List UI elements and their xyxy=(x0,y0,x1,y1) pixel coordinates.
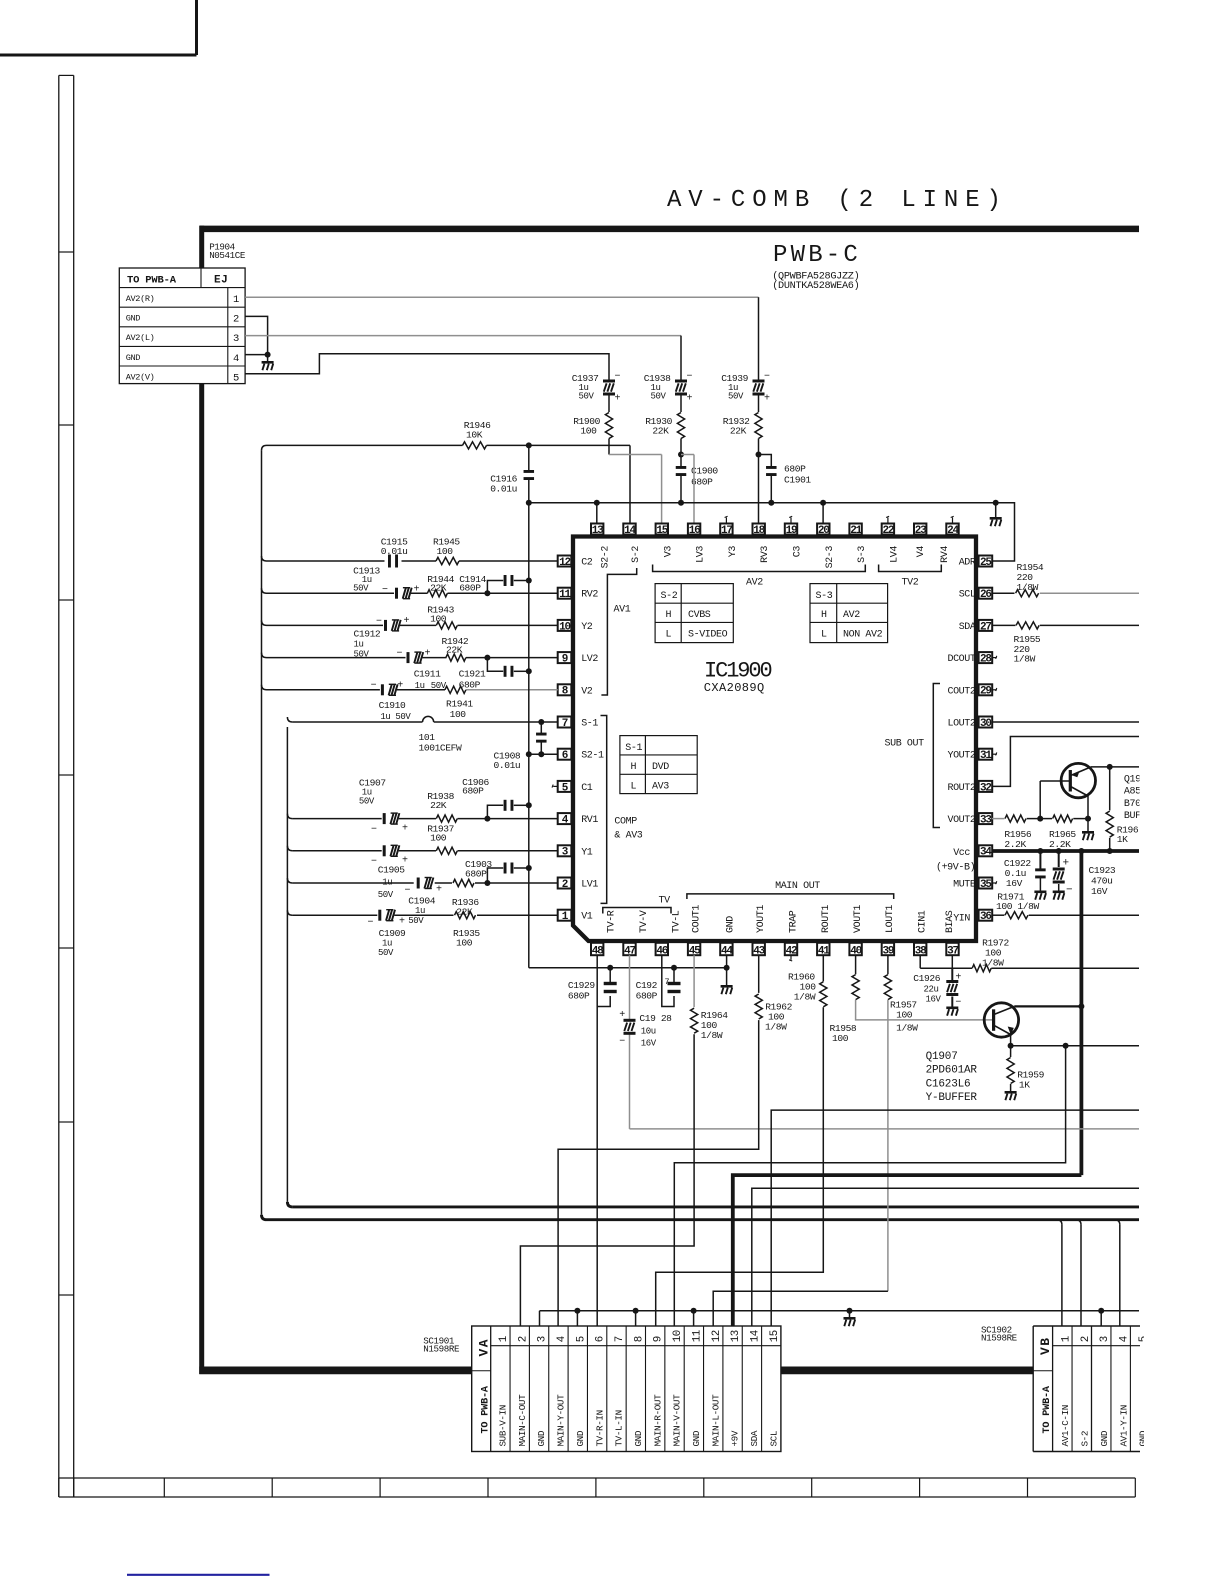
svg-text:7: 7 xyxy=(665,977,670,987)
junction R1944 output node xyxy=(484,590,490,596)
junction collector to R1966 xyxy=(1107,764,1113,770)
wire VOUT1 to Q1907 base xyxy=(856,1000,994,1020)
sheet frame top-left corner box xyxy=(0,0,197,55)
capacitor C1929 680P xyxy=(568,968,617,1007)
wire COUT1 to SC1901 pin2 MAIN-C-OUT xyxy=(520,1034,694,1326)
svg-text:N1598RE: N1598RE xyxy=(423,1344,460,1355)
wire row pin1 V1 xyxy=(287,910,557,915)
pin 38 of IC1900 xyxy=(914,943,927,958)
ground symbol on bus xyxy=(990,503,1002,526)
svg-text:L: L xyxy=(821,630,827,641)
wire EJ pin4 GND xyxy=(245,354,268,356)
IC1900 left pin names xyxy=(581,558,604,923)
svg-text:24: 24 xyxy=(947,525,959,537)
resistor R1938 22K xyxy=(427,791,457,822)
svg-text:+: + xyxy=(425,649,431,660)
svg-text:−: − xyxy=(1066,885,1072,897)
wire row pin3 Y1 xyxy=(287,846,557,851)
svg-text:+: + xyxy=(436,885,442,896)
svg-text:LOUT2: LOUT2 xyxy=(947,719,975,730)
svg-text:2PD601AR: 2PD601AR xyxy=(926,1065,978,1077)
svg-text:C1901: C1901 xyxy=(784,475,811,486)
svg-text:1/8W: 1/8W xyxy=(701,1030,723,1041)
svg-text:Q1907: Q1907 xyxy=(926,1051,958,1063)
transistor Q1908 PNP buffer xyxy=(1040,763,1095,818)
svg-text:ROUT1: ROUT1 xyxy=(821,905,832,933)
capacitor C1911 1u 50V xyxy=(397,649,447,692)
group bracket SUB OUT xyxy=(885,684,941,828)
pin 7 of IC1900 xyxy=(558,717,572,730)
wire Q1907 collector to +9V xyxy=(1014,1005,1081,1007)
svg-text:43: 43 xyxy=(753,946,765,958)
wire Q1908 collector line xyxy=(1091,766,1139,768)
pin 8 of IC1900 xyxy=(558,684,572,697)
svg-text:+: + xyxy=(619,1010,625,1021)
svg-text:AV1-Y-IN: AV1-Y-IN xyxy=(1118,1405,1129,1446)
svg-text:CXA2089Q: CXA2089Q xyxy=(704,681,765,695)
svg-text:50V: 50V xyxy=(378,948,394,958)
resistor R1942 22K xyxy=(442,636,469,661)
resistor R1966 1K xyxy=(1106,767,1139,851)
svg-text:1: 1 xyxy=(498,1336,510,1342)
wire Q1907 emitter line xyxy=(1011,1045,1139,1047)
svg-text:+: + xyxy=(955,973,961,984)
pin 27 of IC1900 xyxy=(979,620,993,633)
resistor R1937 100 xyxy=(427,824,457,855)
pin 19 of IC1900 xyxy=(785,524,797,537)
svg-text:7: 7 xyxy=(562,718,568,730)
svg-text:11: 11 xyxy=(691,1330,703,1342)
wire pin48 TV-R to SC1901 pin6 xyxy=(596,955,598,1326)
resistor R1954 220 1/8W on SCL xyxy=(992,562,1139,597)
pin 43 of IC1900 xyxy=(753,943,766,958)
svg-text:VOUT1: VOUT1 xyxy=(853,905,864,933)
wire EJ pin2 GND xyxy=(245,316,268,354)
ground symbol below C1922 xyxy=(1034,891,1046,900)
junction R1938 output node xyxy=(484,816,490,822)
resistor R1930 22K xyxy=(645,413,684,455)
svg-text:−: − xyxy=(368,918,374,929)
resistor R1944 22K xyxy=(427,574,454,597)
pin 11 of IC1900 xyxy=(558,588,572,601)
svg-text:NON AV2: NON AV2 xyxy=(843,630,883,641)
svg-text:PWB-C: PWB-C xyxy=(773,242,861,269)
svg-text:S-3: S-3 xyxy=(857,546,868,563)
pin 45 of IC1900 xyxy=(688,943,701,958)
svg-text:S2-2: S2-2 xyxy=(601,546,612,569)
svg-text:TO PWB-A: TO PWB-A xyxy=(1042,1385,1053,1433)
wire YOUT1 to SC1901 pin4 MAIN-Y-OUT xyxy=(558,1020,759,1326)
svg-text:H: H xyxy=(821,610,827,621)
capacitor C1906 680P xyxy=(462,777,529,819)
svg-text:& AV3: & AV3 xyxy=(614,831,642,842)
svg-text:MAIN OUT: MAIN OUT xyxy=(775,881,820,892)
svg-text:−: − xyxy=(382,585,388,596)
transistor Q1907 part labels xyxy=(926,1051,978,1104)
wire +9V-B rail from pin34 xyxy=(992,849,1139,853)
connector P1904 N0541CE label xyxy=(209,242,246,262)
svg-text:H: H xyxy=(666,610,672,621)
svg-text:ADR: ADR xyxy=(959,558,976,569)
svg-text:7: 7 xyxy=(614,1336,626,1342)
svg-text:0.01u: 0.01u xyxy=(494,760,521,771)
capacitor C1905 1u 50V xyxy=(371,845,408,900)
svg-text:AV2(V): AV2(V) xyxy=(126,372,155,382)
svg-text:LOUT1: LOUT1 xyxy=(885,905,896,933)
connector EJ (TO PWB-A) table xyxy=(119,268,245,384)
svg-text:Y3: Y3 xyxy=(728,546,739,558)
pin 1 of IC1900 xyxy=(558,910,572,923)
svg-text:100: 100 xyxy=(430,833,447,844)
svg-text:C1912: C1912 xyxy=(354,629,381,640)
capacitor C1907 1u 50V xyxy=(359,778,408,836)
capacitor C1901 680P xyxy=(759,455,812,503)
wire pin46 TV-L to C1927 xyxy=(662,955,674,1006)
svg-text:C1929: C1929 xyxy=(568,980,595,991)
svg-text:IC1900: IC1900 xyxy=(704,659,772,684)
svg-text:10u: 10u xyxy=(641,1027,656,1037)
ground symbol below C1923 xyxy=(1053,891,1065,900)
group bracket MAIN OUT xyxy=(687,881,894,899)
resistor R1946 10K xyxy=(463,420,492,449)
svg-text:VB: VB xyxy=(1038,1336,1053,1355)
wire +9V thick drop x1081.4 xyxy=(1080,851,1084,1175)
svg-text:C1904: C1904 xyxy=(408,896,435,907)
wire bias column x528.8 xyxy=(528,503,530,968)
op-amp/IC IC1900 CXA2089Q body xyxy=(573,537,976,942)
pin 13 of IC1900 xyxy=(591,524,604,537)
pin 28 of IC1900 xyxy=(979,652,993,665)
svg-text:C192: C192 xyxy=(636,980,658,991)
svg-text:V2: V2 xyxy=(581,686,593,697)
svg-text:AV1: AV1 xyxy=(614,605,631,616)
svg-text:H: H xyxy=(631,762,637,773)
wire SDA rail to SC1901 pin14 xyxy=(752,1188,1139,1326)
svg-text:TO PWB-A: TO PWB-A xyxy=(127,274,177,286)
svg-text:680P: 680P xyxy=(459,583,481,594)
pin 24 of IC1900 xyxy=(946,524,959,537)
wire emitter to SC1901 pin10 MAIN-V-OUT xyxy=(674,1046,1065,1326)
capacitor C1912 1u 50V xyxy=(354,616,410,660)
svg-text:2: 2 xyxy=(517,1336,529,1342)
svg-text:GND: GND xyxy=(1099,1430,1110,1446)
wire R1946 row y445 xyxy=(262,445,631,523)
svg-text:22K: 22K xyxy=(446,645,463,656)
svg-text:18: 18 xyxy=(753,525,765,537)
junction Q1908 emitter node xyxy=(1085,816,1091,822)
svg-text:C1911: C1911 xyxy=(414,669,441,680)
svg-text:4: 4 xyxy=(1119,1336,1131,1342)
svg-text:BIAS: BIAS xyxy=(945,910,956,933)
svg-text:C1: C1 xyxy=(581,783,593,794)
svg-text:S-1: S-1 xyxy=(625,743,642,754)
resistor R1900 100 xyxy=(573,413,612,455)
svg-text:50V: 50V xyxy=(408,916,424,926)
svg-text:SDA: SDA xyxy=(959,622,976,633)
svg-text:3: 3 xyxy=(233,333,239,345)
resistor R1932 22K xyxy=(723,413,762,455)
capacitor C1908 0.01u xyxy=(494,722,547,771)
svg-text:LV4: LV4 xyxy=(889,546,900,563)
svg-text:CVBS: CVBS xyxy=(688,610,711,621)
svg-text:41: 41 xyxy=(818,946,830,958)
svg-text:SCL: SCL xyxy=(959,590,976,601)
svg-text:TV-V: TV-V xyxy=(639,910,650,933)
ground symbol at EJ connector xyxy=(262,355,274,371)
svg-text:19: 19 xyxy=(786,525,797,537)
group bracket TV xyxy=(603,896,671,914)
connector SC1901 VA table xyxy=(472,1326,781,1452)
resistor R1960 100 1/8W on ROUT1 xyxy=(788,955,827,1007)
wire SC1902 pin2 riser xyxy=(1076,1220,1081,1326)
svg-text:Y-BUFFER: Y-BUFFER xyxy=(926,1092,978,1104)
pin 48 of IC1900 xyxy=(591,943,604,958)
junction +9V rail nodes xyxy=(1037,848,1112,854)
svg-text:AV2(L): AV2(L) xyxy=(126,333,155,343)
svg-text:10: 10 xyxy=(559,621,570,633)
svg-text:YOUT2: YOUT2 xyxy=(947,751,975,762)
svg-text:VOUT2: VOUT2 xyxy=(947,815,975,826)
capacitor C1904 1u 50V xyxy=(405,878,443,927)
svg-text:26: 26 xyxy=(980,589,991,601)
svg-text:C1900: C1900 xyxy=(691,466,718,477)
svg-text:SUB-V-IN: SUB-V-IN xyxy=(498,1405,509,1446)
wire EJ pin3 AV2(L) to C1938 xyxy=(245,336,681,372)
resistor R1956 2.2K xyxy=(992,815,1040,850)
junction R1936 output node xyxy=(484,880,490,886)
svg-text:V3: V3 xyxy=(663,546,674,558)
svg-text:23: 23 xyxy=(915,525,927,537)
jumper 101 1001CEFW label xyxy=(419,732,463,754)
svg-text:16V: 16V xyxy=(926,995,942,1005)
svg-text:RV3: RV3 xyxy=(760,546,771,563)
svg-text:Y1: Y1 xyxy=(581,847,593,858)
connector SC1901 N1598RE label xyxy=(423,1336,460,1355)
pin 35 of IC1900 xyxy=(979,878,993,891)
svg-text:2: 2 xyxy=(233,314,239,326)
svg-text:AV3: AV3 xyxy=(652,782,669,793)
svg-text:S-2: S-2 xyxy=(1079,1431,1090,1447)
wire row pin8 V2 xyxy=(262,685,558,690)
svg-text:0.01u: 0.01u xyxy=(381,546,408,557)
svg-text:S-VIDEO: S-VIDEO xyxy=(688,630,728,641)
svg-text:GND: GND xyxy=(575,1430,586,1446)
svg-text:−: − xyxy=(619,1037,625,1048)
pin 16 of IC1900 xyxy=(688,524,700,537)
wire pin47 TV-V with series capacitor xyxy=(630,955,1140,1129)
svg-text:12: 12 xyxy=(711,1330,723,1342)
truth table S-1 DVD / AV3 xyxy=(620,736,697,794)
svg-text:680P: 680P xyxy=(636,991,658,1002)
resistor R1935 100 xyxy=(453,912,480,949)
svg-text:TV: TV xyxy=(659,896,671,907)
svg-text:35: 35 xyxy=(980,879,992,891)
svg-text:470u: 470u xyxy=(1091,876,1112,887)
wire row pin12 C2 xyxy=(262,556,558,561)
junction C1908 bottom nodes xyxy=(526,751,545,757)
svg-text:1K: 1K xyxy=(1117,834,1128,845)
svg-text:GND: GND xyxy=(536,1430,547,1446)
group bracket AV1 xyxy=(601,568,636,695)
ground symbol on GND rail xyxy=(844,1311,856,1326)
capacitor C1903 680P xyxy=(465,859,529,883)
svg-text:+: + xyxy=(687,394,693,405)
pin 46 of IC1900 xyxy=(656,943,668,958)
svg-text:100: 100 xyxy=(456,938,473,949)
svg-text:−: − xyxy=(371,857,377,868)
wire SC1902 pin1 riser xyxy=(1057,1220,1062,1326)
group bracket TV2 xyxy=(879,565,942,589)
svg-text:3: 3 xyxy=(1099,1336,1111,1342)
svg-text:C1921: C1921 xyxy=(459,669,486,680)
pin 10 of IC1900 xyxy=(558,620,572,633)
svg-text:+: + xyxy=(615,394,621,405)
svg-text:YOUT1: YOUT1 xyxy=(756,905,767,933)
svg-text:100: 100 xyxy=(832,1033,849,1044)
junction EJ ground node xyxy=(265,352,271,358)
capacitor C1910 1u 50V xyxy=(371,681,412,723)
svg-text:14: 14 xyxy=(749,1330,761,1342)
svg-text:LV2: LV2 xyxy=(581,654,598,665)
svg-text:100 1/8W: 100 1/8W xyxy=(996,901,1040,912)
ground symbol below R1959 xyxy=(1005,1091,1017,1100)
svg-text:1K: 1K xyxy=(1019,1080,1030,1091)
svg-text:C1910: C1910 xyxy=(379,700,406,711)
ground symbol below R1965 xyxy=(1082,819,1094,841)
pin 2 of IC1900 xyxy=(558,878,572,891)
svg-text:15: 15 xyxy=(656,525,668,537)
no-connect ticks on unused pins xyxy=(552,516,997,961)
svg-text:50V: 50V xyxy=(378,890,394,900)
svg-text:SCL: SCL xyxy=(768,1431,779,1447)
svg-text:MUTE: MUTE xyxy=(953,880,976,891)
svg-text:2: 2 xyxy=(562,879,568,891)
resistor R1972 100 1/8W xyxy=(952,938,1139,972)
pin 33 of IC1900 xyxy=(979,813,993,826)
resistor R1959 1K xyxy=(1007,1046,1045,1091)
svg-text:C3: C3 xyxy=(793,546,804,558)
PWB-C board outline top edge xyxy=(200,226,1139,233)
IC1900 bottom pin names rotated xyxy=(607,905,956,933)
wire LOUT1 to SC1901 pin12 MAIN-L-OUT xyxy=(713,1000,888,1326)
group bracket COMP & AV3 xyxy=(601,716,643,904)
pin 32 of IC1900 xyxy=(979,781,993,794)
svg-text:30: 30 xyxy=(980,718,991,730)
wire left feed vertical bus B x287.4 xyxy=(287,727,292,1207)
wire SCL rail to SC1901 pin15 xyxy=(771,1110,1139,1326)
svg-text:N1598RE: N1598RE xyxy=(981,1333,1018,1344)
svg-text:4: 4 xyxy=(233,353,239,365)
junction GND rail nodes xyxy=(574,1308,1104,1314)
junction C1914 to bias line xyxy=(526,578,532,584)
svg-text:L: L xyxy=(666,630,672,641)
IC1900 right pin names xyxy=(936,558,976,925)
svg-text:−: − xyxy=(371,825,377,836)
svg-text:22K: 22K xyxy=(652,426,669,437)
svg-text:S2-1: S2-1 xyxy=(581,751,604,762)
svg-text:9: 9 xyxy=(653,1336,665,1342)
svg-text:16: 16 xyxy=(689,525,700,537)
svg-text:B70: B70 xyxy=(1124,799,1141,810)
capacitor C1921 680P xyxy=(459,658,529,691)
wire row pin2 LV1 xyxy=(287,878,557,883)
svg-text:100: 100 xyxy=(450,709,467,720)
svg-text:100: 100 xyxy=(896,1010,913,1021)
sheet frame left border column with tick divisions xyxy=(59,75,74,1497)
svg-text:45: 45 xyxy=(689,946,701,958)
wire SC1902 pin4 riser xyxy=(1115,1220,1120,1326)
capacitor C1922 0.1u 16V xyxy=(1004,851,1046,891)
svg-text:C1905: C1905 xyxy=(378,865,405,876)
svg-text:DVD: DVD xyxy=(652,762,669,773)
capacitor C1926 22u 16V xyxy=(913,968,961,1008)
pin 17 of IC1900 xyxy=(720,524,732,537)
svg-text:R1941: R1941 xyxy=(446,699,473,710)
svg-text:5: 5 xyxy=(575,1336,587,1342)
svg-text:TRAP: TRAP xyxy=(789,910,800,933)
svg-text:LV3: LV3 xyxy=(696,546,707,563)
pin 20 of IC1900 xyxy=(817,524,829,537)
svg-text:C1623L6: C1623L6 xyxy=(926,1078,971,1090)
svg-text:S-3: S-3 xyxy=(816,591,833,602)
pin 4 of IC1900 xyxy=(558,813,572,826)
svg-text:1/8W: 1/8W xyxy=(896,1023,918,1034)
svg-text:MAIN-C-OUT: MAIN-C-OUT xyxy=(517,1394,528,1447)
junction C1921 to bias line xyxy=(526,668,532,674)
svg-text:50V: 50V xyxy=(728,392,744,402)
truth table S-2 CVBS / S-VIDEO xyxy=(655,584,733,643)
junction R1932 node xyxy=(756,452,762,458)
svg-text:GND: GND xyxy=(633,1430,644,1446)
svg-text:6: 6 xyxy=(595,1336,607,1342)
svg-text:+: + xyxy=(402,824,408,835)
wire +9V thick to SC1901 pin13 xyxy=(733,1175,1082,1326)
pin 3 of IC1900 xyxy=(558,845,572,858)
svg-text:C1926: C1926 xyxy=(913,973,940,984)
pin 5 of IC1900 xyxy=(558,781,572,794)
wire long rail to SC1902 y1219.7 xyxy=(267,1218,1140,1221)
svg-text:AV1-C-IN: AV1-C-IN xyxy=(1060,1405,1071,1446)
svg-text:17: 17 xyxy=(721,525,732,537)
svg-text:AV2: AV2 xyxy=(746,578,763,589)
svg-text:TV-L: TV-L xyxy=(671,910,682,933)
svg-text:11: 11 xyxy=(559,589,571,601)
svg-text:−: − xyxy=(371,681,377,692)
pin 15 of IC1900 xyxy=(656,524,669,537)
svg-text:MAIN-L-OUT: MAIN-L-OUT xyxy=(710,1394,721,1447)
svg-text:CIN1: CIN1 xyxy=(918,910,929,933)
pin 22 of IC1900 xyxy=(882,524,894,537)
capacitor C1913 1u 50V xyxy=(353,566,419,599)
svg-text:(DUNTKA528WEA6): (DUNTKA528WEA6) xyxy=(772,280,859,292)
svg-text:48: 48 xyxy=(592,946,604,958)
capacitor C1937 1u 50V xyxy=(572,372,621,413)
svg-text:+9V: +9V xyxy=(730,1430,741,1446)
svg-text:S-2: S-2 xyxy=(631,546,642,563)
svg-text:1u: 1u xyxy=(354,640,364,650)
wire pins 38 and 37 BIAS node xyxy=(920,955,952,968)
pin 14 of IC1900 xyxy=(623,524,636,537)
wire ROUT1 to SC1901 pin9 MAIN-R-OUT xyxy=(656,1007,824,1326)
svg-text:−: − xyxy=(376,617,382,628)
svg-text:22K: 22K xyxy=(430,800,447,811)
pin 41 of IC1900 xyxy=(817,943,830,958)
svg-text:+: + xyxy=(399,917,405,928)
IC1900 top pin names rotated xyxy=(601,546,951,569)
svg-text:50V: 50V xyxy=(353,584,369,594)
junction R1942 output node xyxy=(484,655,490,661)
pin 40 of IC1900 xyxy=(849,943,861,958)
